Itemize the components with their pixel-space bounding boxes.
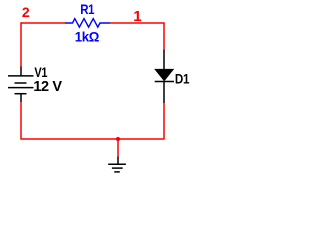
diode D1 triangle: [155, 69, 173, 80]
resistor value label 1kΩ: [75, 29, 99, 45]
battery V1 plate short upper: [15, 82, 27, 84]
battery V1 top lead: [20, 67, 22, 76]
battery value label 12 V: [33, 79, 62, 95]
diode D1 cathode bar: [155, 81, 174, 83]
diode D1 refdes label: [175, 72, 190, 88]
battery V1 plate long top: [8, 75, 34, 77]
diode D1 anode lead: [163, 50, 165, 70]
wire top-right red segment (resistor to node 1 corner): [110, 22, 165, 49]
svg-text:1kΩ: 1kΩ: [75, 29, 99, 45]
wire ground stub red: [117, 139, 119, 157]
svg-text:2: 2: [22, 4, 30, 20]
svg-text:1: 1: [133, 8, 142, 25]
resistor R1 refdes label: [80, 1, 94, 17]
resistor R1: [65, 19, 110, 28]
svg-text:R1: R1: [80, 1, 94, 17]
diode D1 cathode lead: [163, 82, 165, 104]
battery V1 bottom lead: [20, 94, 22, 102]
svg-text:D1: D1: [175, 72, 190, 88]
ground bar short: [114, 171, 120, 173]
wire top-left red segment (node 2 to resistor): [21, 22, 65, 24]
battery V1 plate long lower: [8, 87, 34, 89]
wire bottom rail: [65, 103, 165, 139]
ground bar long: [108, 163, 126, 165]
wire left vertical (node 2 down to battery): [20, 22, 22, 66]
wire left vertical (battery down to bottom rail): [20, 102, 65, 140]
node junction dot: [116, 137, 120, 141]
ground bar middle: [112, 167, 123, 169]
svg-text:12 V: 12 V: [33, 79, 62, 95]
node 2 label: [22, 4, 30, 20]
node 1 label: [133, 8, 142, 25]
battery V1 plate short bottom: [15, 93, 27, 95]
battery V1 refdes label: [34, 65, 47, 81]
ground lead black: [117, 157, 119, 165]
